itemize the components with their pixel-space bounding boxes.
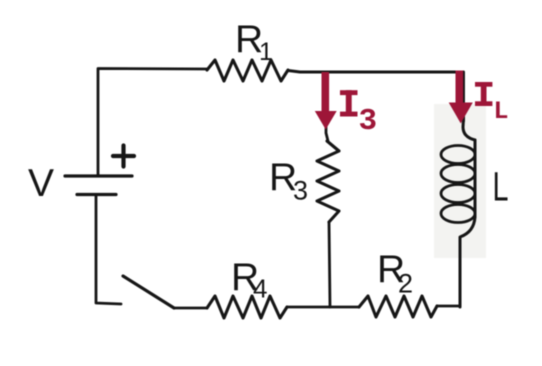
svg-text:3: 3 [359,104,378,139]
svg-text:1: 1 [259,38,273,66]
svg-text:V: V [28,162,54,205]
svg-text:4: 4 [253,274,267,304]
svg-text:2: 2 [398,269,413,299]
svg-text:L: L [493,164,509,210]
svg-text:3: 3 [293,176,308,206]
svg-text:L: L [494,97,509,126]
